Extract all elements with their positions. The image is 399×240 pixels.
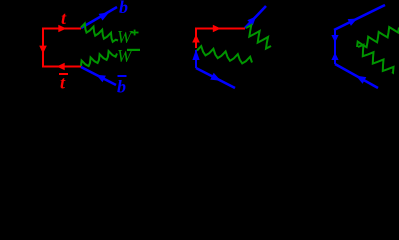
exchanged quark line (vertical) (334, 29, 336, 64)
W boson wave (lower) (197, 46, 252, 63)
svg-text:b: b (119, 0, 128, 17)
W+ boson wave (81, 24, 118, 42)
b-quark diagonal segment (196, 68, 235, 88)
b-quark line (top right) (81, 7, 117, 28)
arrow on tbar line (left) (57, 63, 65, 71)
top-quark line (vertical) (195, 28, 197, 49)
arrow down on vertical (331, 35, 338, 43)
anti-top line tbar (bottom) (43, 66, 81, 68)
bbar-quark line (bottom right) (81, 67, 116, 85)
svg-text:W: W (117, 27, 133, 47)
top-quark line (horizontal) (196, 28, 245, 30)
top-quark line t (top) (43, 28, 81, 30)
arrow on bottom diagonal (up-left) (356, 76, 367, 84)
svg-text:b: b (117, 77, 126, 95)
W boson wave (upper right) (357, 27, 399, 47)
label tbar (59, 73, 68, 75)
incoming b-quark vertical segment (195, 50, 197, 68)
quark line (bottom right diagonal) (335, 64, 378, 88)
arrow on b line (99, 12, 110, 20)
left vertical quark line (42, 28, 44, 68)
arrow on t line (right) (58, 25, 66, 33)
arrow on t line (right) (213, 25, 221, 33)
W- boson wave (81, 51, 117, 66)
W boson wave (lower right) (358, 45, 394, 73)
arrow on bbar line (toward vertex) (96, 75, 106, 83)
quark line (top right diagonal) (334, 5, 385, 30)
arrow on incoming b (up, at vertex) (192, 50, 199, 61)
b-quark line (top right) (245, 6, 266, 28)
arrow on vertical t line (up) (192, 35, 200, 43)
arrow on b line (247, 16, 256, 25)
arrow on top diagonal (up-right) (348, 19, 358, 26)
label bbar (118, 75, 127, 77)
arrow on diagonal (down-right) (210, 73, 221, 81)
W+ boson wave (upper) (246, 25, 271, 49)
arrow up on vertical (331, 53, 338, 61)
arrow on vertical line (down) (39, 46, 47, 54)
